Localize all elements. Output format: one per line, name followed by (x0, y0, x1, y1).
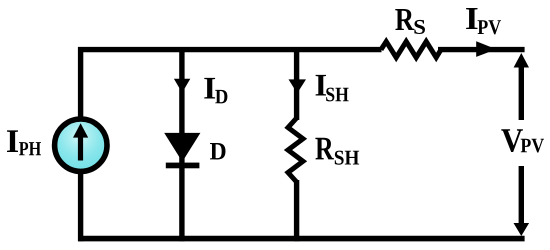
current arrow IPV (on top wire) (476, 41, 496, 57)
wire shunt branch vertical above resistor (294, 47, 299, 120)
label ID (204, 78, 215, 99)
label VPV (501, 129, 523, 152)
diode D (triangle + cathode bar) (164, 133, 200, 162)
label D (210, 143, 225, 159)
wire left vertical below source (78, 172, 83, 241)
label IPH (7, 130, 18, 152)
wire bottom horizontal (78, 236, 525, 242)
wire left vertical above source (78, 47, 83, 118)
label IPV (466, 8, 477, 29)
resistor RSH zigzag (288, 118, 303, 182)
current source IPH (circle with up arrow) (55, 119, 107, 171)
wire top-right horizontal (RS to output) (438, 47, 525, 52)
wire shunt branch vertical below resistor (294, 180, 299, 241)
current arrow ISH (289, 79, 307, 93)
voltage arrow VPV up (top) (519, 64, 524, 120)
label ISH (316, 75, 326, 96)
resistor R_S zigzag (381, 42, 441, 58)
wire top-left horizontal (node between IPH and RS) (78, 47, 382, 52)
current arrow ID (174, 79, 190, 93)
label RSH (315, 138, 334, 160)
wire diode branch vertical (179, 47, 184, 241)
voltage arrow VPV down (bottom) (519, 166, 524, 225)
value label RS (395, 9, 414, 30)
